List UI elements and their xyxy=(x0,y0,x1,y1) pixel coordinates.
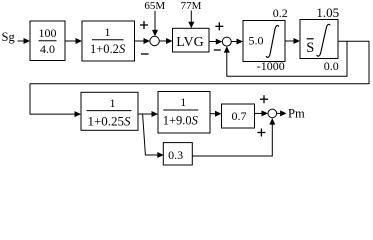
svg-text:1+0.2S: 1+0.2S xyxy=(90,42,126,56)
svg-text:65M: 65M xyxy=(144,0,165,12)
svg-text:Pm: Pm xyxy=(288,106,305,120)
svg-text:1: 1 xyxy=(110,96,116,110)
svg-text:-1000: -1000 xyxy=(257,59,285,73)
svg-text:1: 1 xyxy=(180,95,186,109)
svg-text:1: 1 xyxy=(105,25,111,39)
svg-text:Sg: Sg xyxy=(2,30,16,44)
svg-text:0.3: 0.3 xyxy=(168,148,183,162)
svg-text:1+9.0S: 1+9.0S xyxy=(163,114,199,128)
svg-text:77M: 77M xyxy=(181,0,202,12)
svg-text:0.7: 0.7 xyxy=(232,109,247,123)
svg-text:1+0.25S: 1+0.25S xyxy=(87,113,131,128)
svg-text:1.05: 1.05 xyxy=(316,5,339,20)
svg-text:4.0: 4.0 xyxy=(40,42,55,56)
svg-text:LVG: LVG xyxy=(176,35,204,50)
svg-text:S: S xyxy=(306,40,314,56)
svg-text:5.0: 5.0 xyxy=(249,34,264,48)
svg-text:0.0: 0.0 xyxy=(324,59,339,73)
svg-text:0.2: 0.2 xyxy=(273,6,288,20)
svg-text:100: 100 xyxy=(39,26,57,40)
